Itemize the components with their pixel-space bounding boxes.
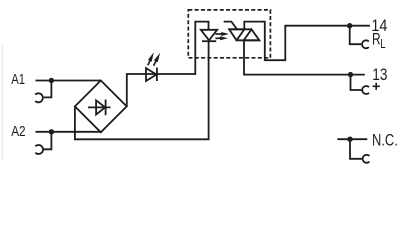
junction A1 bbox=[49, 78, 54, 83]
wire 13 terminal branch bbox=[351, 75, 363, 90]
photo-triac Q1 left triangle bbox=[229, 29, 244, 40]
svg-text:A1: A1 bbox=[11, 71, 25, 88]
photo-triac Q1 right triangle bbox=[244, 29, 260, 40]
svg-text:A2: A2 bbox=[11, 123, 25, 140]
junction node 14 bbox=[347, 23, 352, 28]
optocoupler U1 dashed enclosure bbox=[188, 10, 270, 58]
terminal clamp A1 bbox=[35, 93, 43, 102]
wire N.C. stub bbox=[337, 138, 367, 140]
bridge rectifier B1 outline bbox=[75, 81, 127, 133]
wire A1 terminal branch bbox=[44, 81, 52, 98]
LED D1 emission arrows bbox=[148, 52, 160, 66]
photo-triac Q1 bottom bar bbox=[236, 39, 260, 41]
junction node N.C. bbox=[347, 137, 352, 142]
terminal clamp A2 bbox=[35, 145, 43, 154]
bridge diode symbol bbox=[88, 100, 111, 116]
terminal clamp 13 bbox=[362, 86, 369, 94]
junction A2 bbox=[49, 129, 54, 134]
wire N.C. terminal branch bbox=[350, 139, 363, 159]
wire triac MT2 to terminal 14 (snake) bbox=[244, 22, 370, 61]
photo-triac gate lead bbox=[224, 22, 237, 30]
wire DC plus (bridge right vertex up, LED wire, jog into box to opto anode) bbox=[127, 22, 209, 107]
svg-text:L: L bbox=[380, 37, 385, 51]
wire triac MT1 to terminal 13 bbox=[244, 40, 365, 74]
opto light arrows bbox=[215, 32, 229, 40]
svg-text:N.C.: N.C. bbox=[372, 132, 398, 150]
wire 14 terminal branch bbox=[350, 26, 362, 45]
svg-text:13: 13 bbox=[372, 66, 387, 84]
label plus bbox=[373, 83, 380, 90]
wire DC minus rail (bridge left vertex, down, bottom rail, up to opto cathode) bbox=[75, 41, 209, 139]
wire A2 terminal branch bbox=[43, 132, 51, 150]
wire A1 lead bbox=[36, 80, 101, 82]
photo-triac Q1 top bar bbox=[229, 28, 252, 30]
terminal clamp N.C. bbox=[363, 155, 370, 163]
terminal clamp 14 bbox=[362, 40, 369, 48]
junction node 13 bbox=[348, 72, 353, 77]
opto LED bbox=[201, 30, 217, 41]
wire A2 lead bbox=[36, 131, 101, 133]
faint page edge line bbox=[1, 45, 3, 160]
LED D1 indicator bbox=[146, 68, 157, 81]
